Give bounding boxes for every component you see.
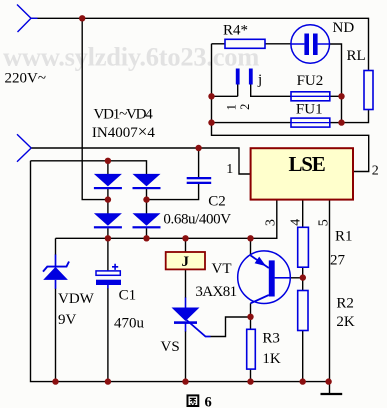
svg-text:3AX81: 3AX81 (195, 284, 236, 300)
svg-text:0.68u/400V: 0.68u/400V (163, 212, 231, 228)
svg-text:R3: R3 (262, 330, 280, 346)
svg-text:R1: R1 (335, 229, 353, 245)
svg-text:2: 2 (372, 163, 379, 178)
svg-text:J: J (182, 254, 190, 270)
svg-text:LSE: LSE (288, 152, 324, 176)
svg-text:j: j (257, 72, 262, 88)
svg-text:FU1: FU1 (296, 102, 323, 118)
svg-text:9V: 9V (58, 312, 77, 328)
svg-text:3: 3 (263, 219, 278, 226)
svg-text:VS: VS (161, 339, 180, 355)
svg-text:www.sylzdiy.6to23.com: www.sylzdiy.6to23.com (3, 42, 259, 72)
svg-text:4: 4 (289, 219, 304, 226)
svg-text:RL: RL (347, 48, 366, 64)
svg-text:C2: C2 (208, 194, 226, 210)
svg-text:1: 1 (226, 162, 233, 177)
svg-text:470u: 470u (114, 316, 145, 332)
svg-text:FU2: FU2 (297, 73, 324, 89)
svg-text:VD1~VD4: VD1~VD4 (94, 107, 154, 123)
svg-text:1K: 1K (262, 351, 281, 367)
svg-text:ND: ND (333, 20, 355, 36)
svg-text:VT: VT (212, 261, 232, 277)
svg-text:2: 2 (238, 104, 252, 110)
svg-text:R4*: R4* (223, 23, 248, 39)
svg-text:IN4007×4: IN4007×4 (92, 122, 155, 141)
svg-text:27: 27 (330, 252, 346, 268)
svg-text:VDW: VDW (58, 291, 95, 307)
svg-text:1: 1 (224, 104, 238, 110)
svg-text:5: 5 (317, 219, 332, 226)
svg-text:2K: 2K (336, 314, 355, 330)
svg-text:220V~: 220V~ (5, 71, 46, 87)
svg-text:R2: R2 (336, 295, 354, 311)
svg-text:C1: C1 (119, 288, 137, 304)
svg-text:6: 6 (205, 394, 212, 408)
